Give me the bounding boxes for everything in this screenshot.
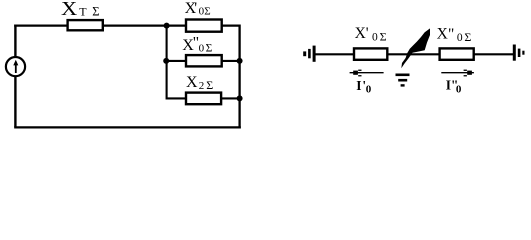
label I'0	[356, 78, 372, 96]
node junction dot branch3 right	[237, 95, 243, 101]
label I''0	[446, 77, 462, 95]
resistor X'0Σ box (right circuit)	[354, 48, 387, 59]
wire branch1 right and right vertical down	[222, 26, 240, 129]
svg-text:Σ: Σ	[206, 42, 213, 54]
svg-text:': '	[366, 25, 369, 42]
current arrow I'0 (pointing left)	[350, 70, 384, 77]
current arrow I''0 (pointing right)	[441, 70, 474, 77]
wire branch2 right	[222, 60, 241, 62]
value label X'0Σ (right circuit)	[355, 25, 387, 44]
svg-text:0: 0	[457, 32, 463, 44]
wire top segment XTΣ box to X'0Σ box	[103, 25, 186, 27]
svg-text:0: 0	[372, 32, 378, 44]
resistor X''0Σ box (branch 2)	[186, 55, 222, 66]
svg-text:0: 0	[456, 83, 462, 95]
value label X'0Σ (branch 1)	[185, 0, 211, 18]
wire left parallel column with branch3 lead	[167, 26, 186, 99]
value label X''0Σ (right circuit)	[437, 26, 472, 44]
svg-text:Σ: Σ	[204, 6, 210, 18]
lightning bolt (fault)	[401, 28, 430, 68]
svg-text:Σ: Σ	[464, 30, 471, 44]
resistor X2Σ box (branch 3)	[186, 93, 221, 105]
ground left (rotated, wire end)	[303, 46, 315, 62]
svg-text:X: X	[437, 26, 448, 43]
wire bottom return	[14, 126, 241, 128]
svg-text:': '	[194, 0, 197, 17]
svg-text:X: X	[355, 25, 366, 42]
svg-text:2: 2	[199, 80, 205, 92]
svg-text:0: 0	[199, 42, 205, 54]
wire between boxes (fault point)	[387, 53, 440, 55]
svg-text:X: X	[61, 0, 78, 20]
svg-text:Σ: Σ	[380, 30, 387, 44]
wire top segment to XTΣ box	[14, 25, 67, 27]
current source arrow	[13, 60, 18, 73]
value label X2Σ (branch 3)	[186, 74, 213, 92]
node junction dot branch2 right	[237, 58, 243, 64]
wire branch2 left	[167, 60, 186, 62]
node junction dot branch2 left	[163, 58, 169, 64]
resistor XΤΣ box	[68, 20, 103, 30]
svg-text:": "	[448, 26, 454, 43]
svg-text:Σ: Σ	[206, 78, 213, 92]
resistor X''0Σ box (right circuit)	[440, 48, 474, 59]
ground right (rotated, wire end)	[513, 45, 525, 61]
svg-text:I: I	[356, 78, 361, 93]
wire left vertical (source branch)	[14, 25, 16, 128]
wire left ground to X'0Σ box	[315, 53, 354, 55]
node junction dot top-left of parallel group	[164, 23, 170, 29]
wire branch3 right	[221, 97, 241, 99]
resistor X'0Σ box (branch 1)	[186, 20, 222, 32]
svg-text:Τ: Τ	[79, 5, 87, 19]
svg-text:X: X	[186, 74, 198, 91]
svg-text:0: 0	[366, 83, 372, 95]
wire X''0Σ box to right ground	[474, 53, 514, 55]
ground centre (below fault)	[396, 74, 410, 87]
value label X''0Σ (branch 2)	[182, 35, 212, 55]
current source I circle	[6, 57, 25, 76]
svg-text:Σ: Σ	[92, 5, 99, 19]
